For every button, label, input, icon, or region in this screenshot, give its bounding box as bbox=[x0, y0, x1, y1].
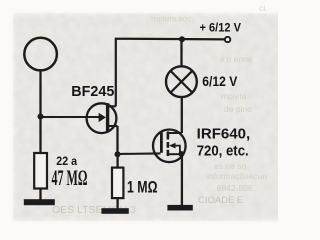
transistor Q2 IRF640 (power MOSFET) bbox=[153, 130, 186, 163]
svg-text:ci.: ci. bbox=[259, 3, 268, 13]
wire: MOSFET source to ground bbox=[181, 154, 183, 206]
svg-text:720, etc.: 720, etc. bbox=[197, 142, 249, 159]
node C (junction dot) bbox=[115, 151, 121, 157]
resistor R2 (1 MΩ) bbox=[112, 154, 123, 209]
node A (junction dot) bbox=[38, 114, 44, 120]
svg-text:de pino: de pino bbox=[224, 104, 252, 114]
svg-text:anna o ir: anna o ir bbox=[219, 54, 252, 64]
svg-text:mpleta: mpleta bbox=[221, 91, 247, 101]
resistor R1 (22 a 47 MΩ) bbox=[34, 117, 47, 201]
lamp X1 6/12V bbox=[166, 66, 197, 97]
svg-text:mplets soc.: mplets soc. bbox=[151, 14, 194, 24]
node B (rail junction dot) bbox=[179, 36, 185, 42]
svg-text:6/12 V: 6/12 V bbox=[202, 74, 237, 89]
supply terminal bbox=[225, 37, 230, 42]
wire: JFET drain up to supply rail bbox=[116, 39, 228, 107]
wire: sensor to gate node bbox=[39, 71, 41, 117]
ground (MOSFET source) bbox=[167, 205, 192, 211]
wire: node C to MOSFET gate bbox=[118, 152, 161, 155]
svg-text:. 6842-806: . 6842-806 bbox=[212, 183, 253, 193]
svg-text:IRF640,: IRF640, bbox=[197, 126, 251, 143]
svg-text:CIOADE E: CIOADE E bbox=[198, 195, 243, 206]
sensor plate E1 (touch electrode) bbox=[24, 38, 57, 71]
svg-text:BF245: BF245 bbox=[71, 83, 114, 100]
ground (R1) bbox=[24, 199, 55, 205]
ground (R2) bbox=[101, 208, 128, 214]
wire: lamp to MOSFET drain bbox=[181, 97, 183, 133]
svg-text:+ 6/12 V: + 6/12 V bbox=[200, 21, 242, 35]
wire: rail to lamp bbox=[180, 39, 182, 66]
transistor Q1 BF245 (JFET) bbox=[87, 103, 118, 133]
wire: node A to JFET gate bbox=[41, 116, 100, 118]
ghost bleed-through background (decorative) bbox=[52, 3, 268, 216]
svg-text:informaçõsecun: informaçõsecun bbox=[207, 171, 267, 181]
scanned paper area bbox=[14, 14, 286, 220]
svg-text:1 MΩ: 1 MΩ bbox=[127, 177, 158, 196]
svg-text:es ne so: es ne so bbox=[214, 161, 246, 171]
svg-text:47 MΩ: 47 MΩ bbox=[52, 165, 88, 190]
wire: JFET source down to node C bbox=[116, 126, 118, 154]
